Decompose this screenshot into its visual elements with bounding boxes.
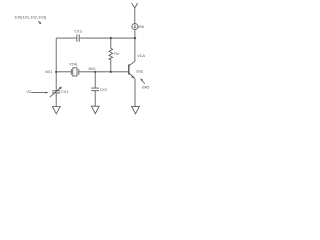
svg-text:BA5: BA5 bbox=[142, 85, 149, 89]
svg-text:CX3: CX3 bbox=[74, 29, 81, 33]
svg-text:N01: N01 bbox=[45, 70, 52, 74]
svg-text:Rx: Rx bbox=[114, 52, 119, 56]
svg-text:N02: N02 bbox=[89, 67, 96, 71]
svg-text:100(101,102,103): 100(101,102,103) bbox=[14, 15, 47, 20]
svg-text:VC: VC bbox=[26, 90, 32, 94]
svg-text:IBA: IBA bbox=[138, 25, 145, 29]
svg-text:TR5: TR5 bbox=[136, 70, 143, 74]
svg-text:CX2: CX2 bbox=[100, 88, 107, 92]
svg-text:CX1: CX1 bbox=[61, 90, 68, 94]
svg-text:VCA: VCA bbox=[137, 54, 145, 58]
svg-text:XTAL: XTAL bbox=[69, 63, 78, 67]
